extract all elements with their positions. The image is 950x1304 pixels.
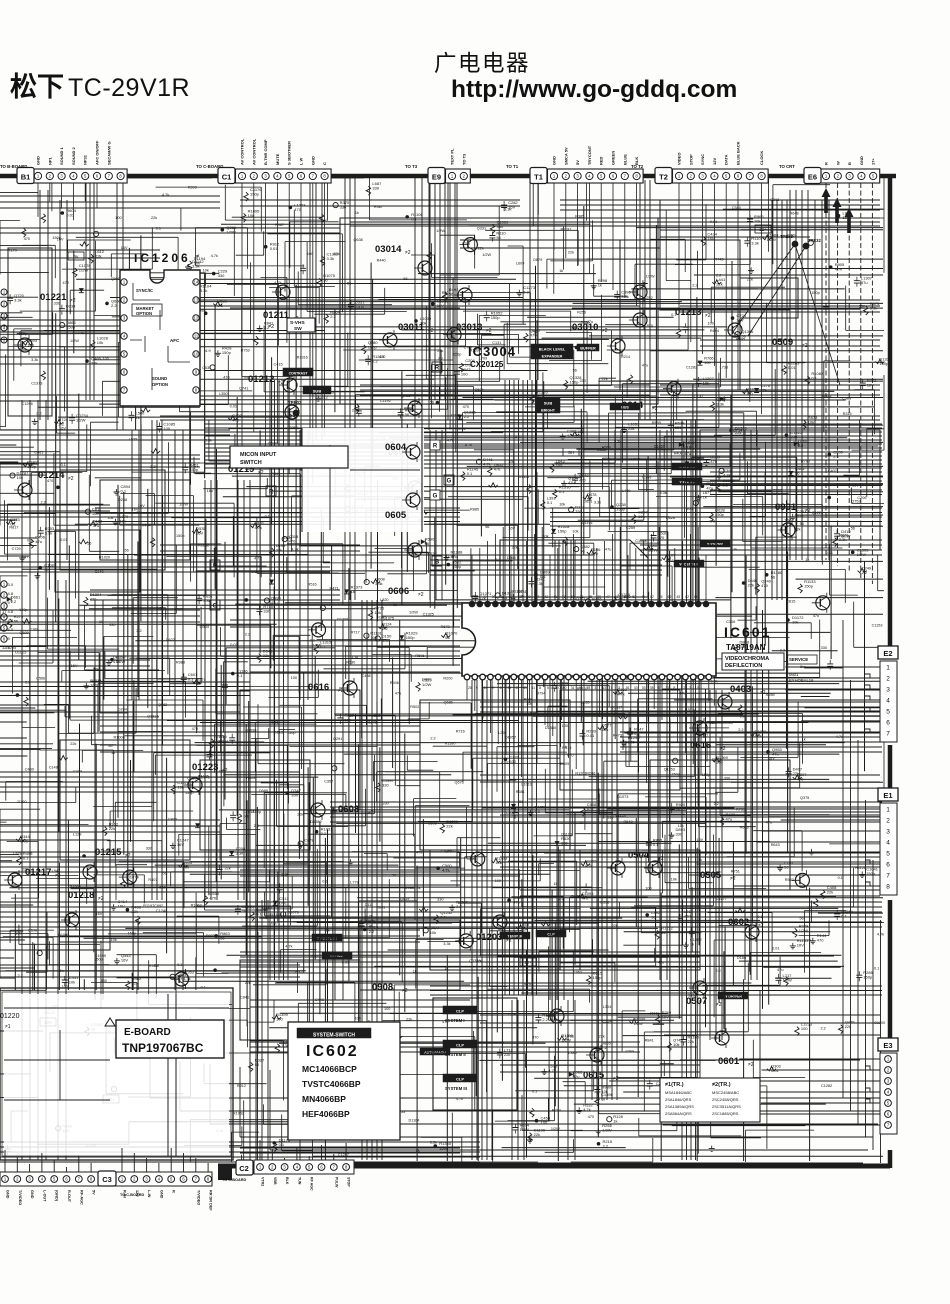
svg-text:16V: 16V xyxy=(121,957,128,962)
svg-text:47u: 47u xyxy=(35,539,42,544)
svg-text:C468: C468 xyxy=(362,674,371,678)
svg-text:7: 7 xyxy=(886,872,890,879)
svg-text:BRIGHT: BRIGHT xyxy=(541,409,556,413)
svg-text:22k: 22k xyxy=(478,247,484,251)
svg-text:TRYCONT: TRYCONT xyxy=(587,145,592,165)
svg-text:DEFILECTION: DEFILECTION xyxy=(725,663,762,669)
svg-text:EYHOBAL16: EYHOBAL16 xyxy=(789,678,814,683)
svg-text:2.2: 2.2 xyxy=(111,303,117,308)
svg-text:330: 330 xyxy=(291,793,298,798)
svg-text:PULW: PULW xyxy=(334,1177,338,1188)
svg-text:2.2: 2.2 xyxy=(321,831,327,836)
svg-text:10k: 10k xyxy=(203,269,209,273)
svg-text:47u: 47u xyxy=(395,691,401,695)
svg-text:L820: L820 xyxy=(380,598,388,602)
svg-text:2.2: 2.2 xyxy=(464,414,470,419)
svg-text:T2: T2 xyxy=(659,173,668,182)
svg-text:470: 470 xyxy=(463,405,469,409)
svg-text:0.1: 0.1 xyxy=(532,1090,537,1094)
svg-text:1/2W: 1/2W xyxy=(482,253,491,257)
svg-text:R-OUT: R-OUT xyxy=(67,1190,71,1203)
svg-text:松下: 松下 xyxy=(10,72,64,102)
svg-text:4: 4 xyxy=(886,697,890,704)
svg-text:SECAM/W G: SECAM/W G xyxy=(106,141,111,165)
svg-text:2.2: 2.2 xyxy=(542,1017,548,1022)
svg-text:C148: C148 xyxy=(49,766,58,770)
svg-text:56: 56 xyxy=(125,549,129,553)
svg-text:0.01: 0.01 xyxy=(270,246,279,251)
svg-text:Q753: Q753 xyxy=(851,499,860,503)
svg-text:150p: 150p xyxy=(222,350,232,355)
svg-text:AV CONTROL: AV CONTROL xyxy=(251,138,256,165)
svg-text:330: 330 xyxy=(509,759,516,764)
svg-text:2SC1885/QRS: 2SC1885/QRS xyxy=(712,1111,739,1116)
svg-text:2.2: 2.2 xyxy=(430,736,435,740)
svg-text:R565: R565 xyxy=(174,607,183,611)
svg-text:CONTRAST: CONTRAST xyxy=(289,372,309,376)
svg-text:16V: 16V xyxy=(196,530,203,535)
svg-text:330: 330 xyxy=(372,186,379,191)
svg-text:0.01: 0.01 xyxy=(586,733,595,738)
svg-text:C3: C3 xyxy=(102,1175,112,1184)
svg-text:TA8719AN: TA8719AN xyxy=(726,643,766,652)
svg-text:E1: E1 xyxy=(883,791,892,800)
svg-text:R256: R256 xyxy=(577,311,586,315)
svg-text:01220: 01220 xyxy=(0,1013,20,1020)
svg-text:EXPANDER: EXPANDER xyxy=(542,355,563,359)
svg-text:3: 3 xyxy=(886,828,890,835)
svg-text:L576: L576 xyxy=(13,852,21,856)
svg-text:0.01: 0.01 xyxy=(60,538,67,542)
svg-text:3.3k: 3.3k xyxy=(443,942,450,946)
svg-text:0.1: 0.1 xyxy=(467,471,473,476)
svg-text:330: 330 xyxy=(109,623,115,627)
svg-text:Q291: Q291 xyxy=(333,737,342,741)
svg-text:16V: 16V xyxy=(591,552,598,557)
svg-text:R407: R407 xyxy=(148,878,157,882)
svg-text:R1367: R1367 xyxy=(512,589,523,593)
svg-text:CLP: CLP xyxy=(547,933,555,937)
svg-text:22k: 22k xyxy=(446,824,452,829)
svg-text:150p: 150p xyxy=(811,291,819,295)
svg-text:13: 13 xyxy=(194,298,199,303)
svg-text:4.7k: 4.7k xyxy=(835,267,843,272)
svg-text:6: 6 xyxy=(886,861,890,868)
svg-text:16V: 16V xyxy=(607,816,614,820)
svg-text:SWITCH: SWITCH xyxy=(240,460,262,466)
svg-text:R817: R817 xyxy=(9,525,18,529)
svg-text:VTR2: VTR2 xyxy=(261,1177,265,1186)
svg-text:C661: C661 xyxy=(34,450,43,454)
svg-text:R1197: R1197 xyxy=(577,687,588,691)
svg-text:3.3k: 3.3k xyxy=(375,581,383,586)
svg-text:TO T2: TO T2 xyxy=(631,164,644,169)
svg-text:150p: 150p xyxy=(570,380,580,385)
svg-text:0604: 0604 xyxy=(385,442,407,453)
svg-text:3: 3 xyxy=(886,686,890,693)
svg-text:470: 470 xyxy=(624,595,630,599)
svg-text:1/2W: 1/2W xyxy=(436,229,445,233)
svg-text:22k: 22k xyxy=(109,826,115,831)
svg-text:IC602: IC602 xyxy=(306,1043,359,1060)
svg-text:62: 62 xyxy=(685,595,689,599)
svg-text:4.7k: 4.7k xyxy=(211,254,218,258)
svg-text:22k: 22k xyxy=(297,813,303,817)
svg-text:1/2W: 1/2W xyxy=(602,1127,612,1132)
svg-text:0.1: 0.1 xyxy=(838,876,843,880)
svg-text:01221: 01221 xyxy=(40,292,67,303)
svg-text:100: 100 xyxy=(461,371,468,376)
svg-text:43: 43 xyxy=(634,686,638,690)
svg-text:SH: SH xyxy=(568,450,574,455)
svg-text:Q676: Q676 xyxy=(455,780,464,784)
svg-text:TO C-BOARD: TO C-BOARD xyxy=(222,1178,246,1182)
svg-text:1k: 1k xyxy=(613,1119,617,1124)
svg-text:16V: 16V xyxy=(207,489,214,493)
svg-text:SUB: SUB xyxy=(313,389,322,394)
svg-text:C1: C1 xyxy=(222,173,232,182)
svg-text:TO C-BOARD: TO C-BOARD xyxy=(120,1193,144,1197)
svg-text:150p: 150p xyxy=(406,635,416,640)
svg-text:4.7k: 4.7k xyxy=(617,692,625,697)
svg-text:CLP: CLP xyxy=(456,1077,464,1082)
svg-text:2.2: 2.2 xyxy=(372,359,378,364)
svg-text:0.1: 0.1 xyxy=(188,677,194,682)
svg-text:TUN: TUN xyxy=(297,1177,301,1185)
svg-text:S-VHS: S-VHS xyxy=(290,320,305,326)
svg-text:47u: 47u xyxy=(605,548,611,552)
svg-text:47u: 47u xyxy=(685,452,691,456)
svg-text:100: 100 xyxy=(115,216,121,220)
svg-text:56: 56 xyxy=(485,525,489,529)
svg-text:20: 20 xyxy=(468,686,472,690)
svg-text:45: 45 xyxy=(676,595,680,599)
svg-text:T/VIDEO: T/VIDEO xyxy=(196,1190,200,1205)
svg-text:R641: R641 xyxy=(376,906,385,910)
svg-text:C1282: C1282 xyxy=(686,366,697,370)
svg-text:12+: 12+ xyxy=(524,960,532,965)
svg-text:L W: L W xyxy=(299,158,304,165)
svg-text:D284: D284 xyxy=(118,708,127,712)
svg-text:8: 8 xyxy=(886,883,890,890)
svg-text:D609: D609 xyxy=(560,762,569,766)
svg-text:R502: R502 xyxy=(410,705,419,709)
svg-text:SOUND 1: SOUND 1 xyxy=(59,146,64,165)
svg-text:2.2: 2.2 xyxy=(11,599,17,604)
svg-text:≠2: ≠2 xyxy=(748,1062,754,1068)
svg-text:VIDEO: VIDEO xyxy=(677,153,682,165)
svg-text:330: 330 xyxy=(821,646,827,650)
svg-text:R609: R609 xyxy=(524,698,533,702)
svg-text:R: R xyxy=(433,444,438,450)
svg-text:RR DR DEF: RR DR DEF xyxy=(209,1190,213,1211)
svg-text:2SC2458/QRS: 2SC2458/QRS xyxy=(712,1097,739,1102)
svg-text:R912: R912 xyxy=(237,1084,246,1088)
svg-text:33: 33 xyxy=(642,686,646,690)
svg-text:330: 330 xyxy=(340,205,347,210)
svg-text:SMCA 5V: SMCA 5V xyxy=(563,147,568,165)
svg-text:R643: R643 xyxy=(771,843,780,847)
svg-text:2.2: 2.2 xyxy=(738,728,743,732)
svg-text:150p: 150p xyxy=(804,583,814,588)
svg-text:TO T3: TO T3 xyxy=(405,164,418,169)
svg-text:8: 8 xyxy=(539,686,541,690)
svg-text:4.7k: 4.7k xyxy=(755,734,763,739)
svg-text:4.9: 4.9 xyxy=(205,348,211,353)
svg-text:47u: 47u xyxy=(861,280,868,285)
svg-text:T1: T1 xyxy=(534,173,543,182)
svg-text:R603: R603 xyxy=(740,826,749,830)
svg-text:100: 100 xyxy=(801,1026,808,1031)
svg-text:≠2: ≠2 xyxy=(730,876,736,882)
svg-text:C433: C433 xyxy=(73,769,82,773)
svg-text:TVSTC4066BP: TVSTC4066BP xyxy=(302,1079,361,1089)
svg-text:150p: 150p xyxy=(879,361,889,366)
svg-text:TPE02: TPE02 xyxy=(288,400,302,405)
svg-text:1/2W: 1/2W xyxy=(767,237,777,242)
svg-text:0.1: 0.1 xyxy=(841,913,847,918)
svg-text:STOP: STOP xyxy=(347,1177,351,1187)
svg-text:TC-29V1R: TC-29V1R xyxy=(68,74,190,102)
svg-text:47u: 47u xyxy=(93,523,100,528)
svg-text:B-THR COMP: B-THR COMP xyxy=(263,139,268,165)
svg-text:3.3k: 3.3k xyxy=(236,851,244,856)
svg-text:C566: C566 xyxy=(36,676,45,680)
svg-text:C: C xyxy=(322,162,327,165)
svg-text:TO CRT: TO CRT xyxy=(779,164,795,169)
svg-text:2.2: 2.2 xyxy=(692,284,697,288)
svg-text:0606: 0606 xyxy=(388,586,409,597)
svg-text:3.3k: 3.3k xyxy=(504,208,511,212)
svg-text:L778: L778 xyxy=(350,881,358,885)
svg-text:38: 38 xyxy=(650,686,654,690)
svg-text:0.1: 0.1 xyxy=(23,856,29,861)
svg-text:C631: C631 xyxy=(202,366,211,370)
svg-text:150p: 150p xyxy=(863,975,873,980)
svg-text:01215: 01215 xyxy=(95,847,122,858)
svg-text:3.3k: 3.3k xyxy=(205,439,212,443)
svg-text:22k: 22k xyxy=(716,282,722,287)
svg-text:GREEN: GREEN xyxy=(611,151,616,165)
svg-text:6: 6 xyxy=(500,686,502,690)
svg-text:http://www.go-gddq.com: http://www.go-gddq.com xyxy=(451,76,737,103)
svg-text:OPTION: OPTION xyxy=(136,311,152,316)
svg-text:22k: 22k xyxy=(602,377,608,381)
svg-text:TNP197067BC: TNP197067BC xyxy=(122,1041,204,1055)
svg-text:4.7k: 4.7k xyxy=(183,977,190,981)
svg-text:3.3k: 3.3k xyxy=(751,240,759,245)
svg-text:2SA1389A/QRS: 2SA1389A/QRS xyxy=(665,1104,694,1109)
svg-text:1: 1 xyxy=(886,806,890,813)
svg-text:R751: R751 xyxy=(731,869,740,873)
svg-text:7: 7 xyxy=(886,730,890,737)
svg-text:R1008: R1008 xyxy=(114,736,125,740)
svg-text:C430: C430 xyxy=(25,768,34,772)
svg-text:≠2(TR.): ≠2(TR.) xyxy=(712,1082,731,1088)
svg-text:1k: 1k xyxy=(355,211,359,215)
svg-text:0.01: 0.01 xyxy=(788,365,797,370)
svg-text:BLK: BLK xyxy=(285,1177,289,1185)
svg-text:MSA1846/ABC: MSA1846/ABC xyxy=(665,1090,692,1095)
svg-text:AV CONTROL: AV CONTROL xyxy=(240,138,245,165)
svg-text:GND: GND xyxy=(6,1190,10,1199)
svg-text:NP31: NP31 xyxy=(83,154,88,165)
svg-text:MSC2458/ABC: MSC2458/ABC xyxy=(712,1090,739,1095)
svg-text:470: 470 xyxy=(817,937,824,942)
svg-text:BLUE: BLUE xyxy=(622,154,627,165)
svg-text:0601: 0601 xyxy=(789,672,799,677)
svg-text:E3: E3 xyxy=(883,1041,892,1050)
svg-text:≠2: ≠2 xyxy=(418,592,424,598)
svg-text:C1153: C1153 xyxy=(872,624,883,628)
svg-text:BLACK LEVEL: BLACK LEVEL xyxy=(539,348,566,352)
svg-text:49: 49 xyxy=(523,686,527,690)
svg-text:(GND): (GND) xyxy=(55,1190,59,1202)
svg-text:GND: GND xyxy=(159,1190,163,1199)
svg-text:1k: 1k xyxy=(841,534,845,538)
svg-text:100: 100 xyxy=(276,1017,283,1022)
svg-text:22k: 22k xyxy=(70,742,76,746)
svg-text:10k: 10k xyxy=(559,503,565,507)
svg-text:0.1: 0.1 xyxy=(411,216,417,221)
svg-text:AFC ON/OFF: AFC ON/OFF xyxy=(95,140,100,165)
svg-text:1: 1 xyxy=(886,664,890,671)
svg-text:SOUND: SOUND xyxy=(152,376,167,381)
svg-text:5V: 5V xyxy=(92,1190,96,1195)
svg-text:CLP: CLP xyxy=(456,1009,464,1014)
svg-text:SERVICE: SERVICE xyxy=(789,657,808,662)
svg-text:2: 2 xyxy=(886,817,890,824)
svg-text:47u: 47u xyxy=(494,466,501,471)
svg-text:56: 56 xyxy=(573,369,577,373)
svg-text:≠2: ≠2 xyxy=(70,298,76,304)
svg-text:0605: 0605 xyxy=(385,510,407,521)
svg-text:SW: SW xyxy=(294,326,302,332)
svg-text:2.2: 2.2 xyxy=(245,633,250,637)
svg-text:56: 56 xyxy=(14,618,19,623)
svg-text:L786: L786 xyxy=(565,1034,573,1038)
svg-text:Q741: Q741 xyxy=(239,386,248,390)
svg-text:1/2W: 1/2W xyxy=(422,682,432,687)
svg-text:GND: GND xyxy=(552,156,557,165)
svg-text:10k: 10k xyxy=(69,980,75,985)
svg-text:03010: 03010 xyxy=(572,322,598,333)
svg-text:16V: 16V xyxy=(118,904,125,909)
svg-text:22k: 22k xyxy=(333,252,339,256)
svg-text:0.01: 0.01 xyxy=(772,946,779,950)
svg-text:SOUND 2: SOUND 2 xyxy=(71,146,76,165)
svg-text:R946: R946 xyxy=(390,681,399,685)
svg-text:SYNC: SYNC xyxy=(700,154,705,165)
svg-text:S 3B/OTHER: S 3B/OTHER xyxy=(287,141,292,165)
svg-text:≠2: ≠2 xyxy=(68,476,74,482)
svg-text:0.01: 0.01 xyxy=(230,405,237,409)
svg-text:4.7k: 4.7k xyxy=(255,525,263,530)
svg-text:12V: 12V xyxy=(712,158,717,165)
svg-text:0.1: 0.1 xyxy=(201,985,206,989)
svg-text:Q331: Q331 xyxy=(477,227,486,231)
svg-text:150p: 150p xyxy=(128,931,136,935)
svg-text:G: G xyxy=(433,494,438,500)
svg-text:L153: L153 xyxy=(581,701,589,705)
svg-text:GND: GND xyxy=(859,156,864,165)
svg-text:D960: D960 xyxy=(422,678,431,682)
svg-text:10k: 10k xyxy=(754,219,760,224)
svg-text:17+: 17+ xyxy=(871,158,876,165)
svg-text:1/2W: 1/2W xyxy=(70,339,79,343)
svg-text:22k: 22k xyxy=(568,251,574,255)
svg-text:330: 330 xyxy=(218,273,225,278)
svg-text:150p: 150p xyxy=(250,192,260,197)
svg-text:5V: 5V xyxy=(575,160,580,165)
svg-text:10k: 10k xyxy=(430,930,436,935)
svg-text:14: 14 xyxy=(194,280,199,285)
svg-text:0901: 0901 xyxy=(775,502,797,513)
svg-text:01211: 01211 xyxy=(263,310,290,321)
svg-text:56: 56 xyxy=(445,635,450,640)
svg-text:10k: 10k xyxy=(97,340,103,345)
svg-text:HEF4066BP: HEF4066BP xyxy=(302,1109,350,1119)
svg-text:BUFFER: BUFFER xyxy=(580,347,596,351)
svg-text:3.3k: 3.3k xyxy=(200,288,208,293)
svg-text:R393: R393 xyxy=(188,186,197,190)
svg-text:SYNC/IC: SYNC/IC xyxy=(136,288,153,293)
svg-text:Q375: Q375 xyxy=(800,796,809,800)
svg-text:10k: 10k xyxy=(495,860,501,865)
svg-text:8m: 8m xyxy=(800,664,806,669)
svg-text:C1373: C1373 xyxy=(31,381,42,385)
svg-text:2.2: 2.2 xyxy=(36,412,41,416)
svg-text:TO C-BOARD: TO C-BOARD xyxy=(196,164,223,169)
svg-text:R1052: R1052 xyxy=(233,1111,244,1115)
svg-text:≠2: ≠2 xyxy=(405,250,411,256)
svg-text:GND: GND xyxy=(310,156,315,165)
svg-text:0.01: 0.01 xyxy=(771,1068,780,1073)
svg-text:R214: R214 xyxy=(552,1108,561,1112)
svg-text:62: 62 xyxy=(650,595,654,599)
svg-text:B1: B1 xyxy=(21,173,31,182)
svg-text:56: 56 xyxy=(851,527,855,531)
svg-text:150p: 150p xyxy=(94,958,102,962)
svg-text:BLUE BACK: BLUE BACK xyxy=(736,141,741,165)
svg-text:MC14066BCP: MC14066BCP xyxy=(302,1064,357,1074)
svg-text:≠2: ≠2 xyxy=(268,324,274,330)
svg-text:G: G xyxy=(447,479,452,485)
svg-text:RED: RED xyxy=(599,156,604,165)
svg-text:56: 56 xyxy=(323,278,328,283)
svg-text:470: 470 xyxy=(379,355,385,359)
svg-text:1k: 1k xyxy=(559,269,563,273)
svg-text:150p: 150p xyxy=(27,464,37,469)
svg-text:16V: 16V xyxy=(121,246,128,250)
svg-text:D213: D213 xyxy=(274,731,283,735)
svg-text:SYSTEM-SWITCH: SYSTEM-SWITCH xyxy=(313,1033,355,1039)
svg-text:B: B xyxy=(847,162,852,165)
svg-text:E6: E6 xyxy=(808,173,817,182)
svg-text:SYSTEM II: SYSTEM II xyxy=(445,1052,466,1057)
svg-text:CLOCK: CLOCK xyxy=(759,151,764,165)
svg-text:R794: R794 xyxy=(536,692,545,696)
svg-text:C841: C841 xyxy=(240,996,249,1000)
svg-text:10k: 10k xyxy=(792,620,798,625)
svg-text:3: 3 xyxy=(594,686,596,690)
svg-text:2SA1846/QRS: 2SA1846/QRS xyxy=(665,1097,692,1102)
svg-text:R: R xyxy=(172,1190,176,1193)
svg-text:CX20125: CX20125 xyxy=(470,360,504,369)
svg-text:L738: L738 xyxy=(720,366,728,370)
svg-text:0.1: 0.1 xyxy=(547,500,553,505)
svg-text:E2: E2 xyxy=(883,649,892,658)
